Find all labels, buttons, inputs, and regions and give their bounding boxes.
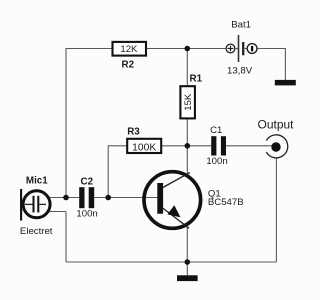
svg-text:Mic1: Mic1 [26, 176, 48, 187]
wire node to C1 [187, 145, 211, 147]
capacitor C1 [206, 125, 227, 167]
wire ground stem bottom [186, 262, 188, 275]
svg-text:R2: R2 [122, 59, 135, 70]
collector diagonal [162, 173, 190, 188]
ground top right [275, 80, 296, 86]
battery long plate [238, 35, 240, 62]
svg-text:100K: 100K [132, 143, 156, 154]
capacitor C2 [76, 176, 97, 219]
resistor R1 [180, 74, 202, 119]
battery Bat1 minus terminal [247, 44, 257, 54]
wire output vertical [275, 158, 277, 262]
node emitter / ground rail [185, 259, 191, 265]
output connector [257, 118, 294, 158]
battery lead left [235, 48, 239, 50]
svg-text:Output: Output [257, 118, 294, 132]
wire bottom rail [66, 261, 276, 263]
wire R1 bottom / collector [186, 118, 188, 175]
node mic / C2 / R2 feed [63, 195, 69, 201]
microphone Mic1 [20, 176, 53, 238]
wire top-left horizontal [66, 48, 113, 50]
wire battery ground stem [284, 48, 286, 81]
wire C1 to output [226, 145, 274, 147]
svg-text:C1: C1 [210, 125, 222, 136]
wire R3 right [161, 145, 187, 147]
wire R2 to battery [146, 48, 227, 50]
ground bottom [177, 275, 198, 281]
svg-text:100n: 100n [76, 209, 97, 220]
wire R1 top [186, 49, 188, 87]
wire R3 left horizontal [108, 145, 127, 147]
svg-text:100n: 100n [206, 156, 227, 167]
wire left vertical [65, 48, 67, 198]
svg-text:13,8V: 13,8V [227, 65, 253, 76]
svg-text:Electret: Electret [20, 226, 53, 237]
node top rail to R1 [185, 46, 191, 52]
node C2 / base / R3 [105, 195, 111, 201]
svg-text:12K: 12K [120, 44, 138, 55]
svg-text:R1: R1 [190, 74, 203, 85]
wire mic lower vertical [65, 212, 67, 263]
svg-text:BC547B: BC547B [208, 197, 244, 208]
wire emitter vertical [186, 227, 188, 263]
node collector / R3 / C1 [185, 143, 191, 149]
svg-text:15K: 15K [183, 93, 194, 111]
wire R3 left vertical [107, 146, 109, 198]
battery Bat1 plus terminal [226, 44, 235, 53]
wire C2 to base [94, 197, 157, 199]
resistor R3 [127, 127, 161, 154]
emitter diagonal [162, 208, 189, 229]
wire battery to corner [257, 48, 285, 50]
emitter arrow [167, 205, 180, 217]
battery short plate [242, 42, 244, 55]
svg-text:C2: C2 [81, 176, 94, 187]
svg-text:R3: R3 [127, 127, 140, 138]
svg-text:Bat1: Bat1 [231, 19, 251, 30]
transistor Q1 [144, 172, 244, 229]
battery lead right [243, 48, 247, 50]
wire mic to C2 [49, 197, 80, 199]
wire mic lower horizontal [50, 211, 67, 213]
resistor R2 [113, 42, 147, 70]
